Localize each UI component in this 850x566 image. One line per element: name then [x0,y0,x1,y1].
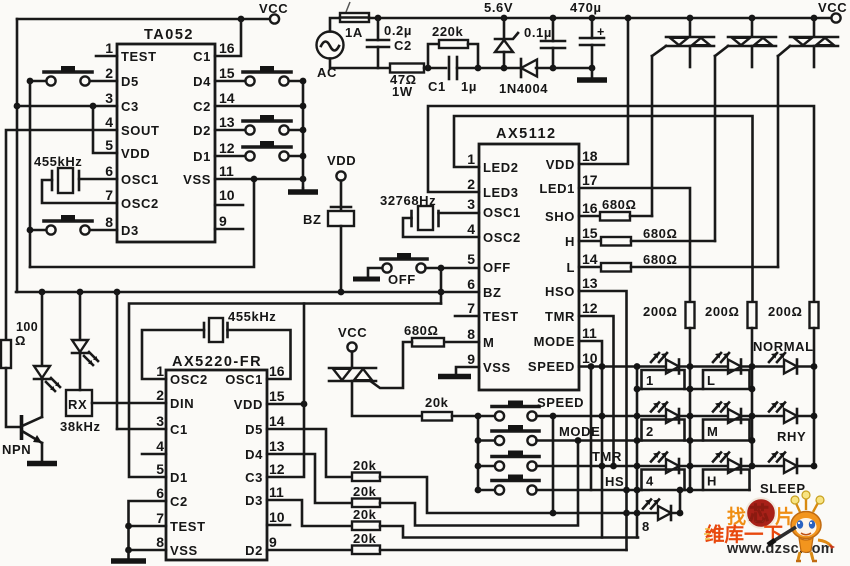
wire AC bottom row [330,59,390,69]
svg-text:+: + [597,25,605,39]
node zener bottom [501,65,508,72]
stray pencil mark [346,2,350,12]
node colB r3 [749,463,756,470]
node x553 top [550,413,557,420]
svg-text:C1: C1 [193,49,211,64]
wire matrix left vertical x637 [636,367,639,538]
wire row1 segment to colB [690,365,752,368]
wire 20k-4 long to row8 riser [380,549,627,552]
svg-text:1W: 1W [392,84,413,99]
pin10 stub AX5220 [267,524,290,527]
svg-text:C2: C2 [394,38,412,53]
node colA b3 [687,487,694,494]
node colB b2 [749,437,756,444]
resistor 200ohm col1 [643,302,695,328]
wire x117 riser [116,292,119,429]
wire box bottom line y389 [637,388,752,391]
svg-text:2: 2 [467,176,475,192]
zener D1 5.6V [484,0,518,68]
svg-text:VCC: VCC [818,0,847,15]
IC U1 TA052 body [105,27,235,242]
svg-text:TEST: TEST [483,309,519,324]
LED D12 cell H [713,453,741,474]
svg-text:D3: D3 [245,493,263,508]
svg-text:18: 18 [582,148,598,164]
node junction x93 on C3 line [90,103,97,110]
svg-text:7: 7 [105,187,113,203]
svg-text:TEST: TEST [121,49,157,64]
svg-text:38kHz: 38kHz [60,419,101,434]
label box H [703,470,750,491]
pushbutton OFF [353,253,427,287]
svg-text:15: 15 [219,65,235,81]
triac Q5 with VCC [329,325,376,381]
svg-text:RHY: RHY [777,429,806,444]
label box 2 [642,420,685,441]
ground GND3 [438,374,471,380]
svg-text:SLEEP: SLEEP [760,481,806,496]
svg-text:5: 5 [156,461,164,477]
svg-text:680Ω: 680Ω [643,252,678,267]
wire row3 segment A-B [637,465,752,468]
svg-text:9: 9 [467,351,475,367]
svg-text:TMR: TMR [592,449,622,464]
wire pin9 VSS to ground [456,367,479,374]
wire BZ long net y292 [16,291,479,294]
label box 1 [642,370,685,389]
wire triac Q5 MT1 [352,381,422,416]
IR LED D4 (x80) [72,292,98,390]
svg-text:D5: D5 [121,74,139,89]
node x680 bottom [677,510,684,517]
wire left rail x17 [16,19,19,292]
wire 20k-3 to x602 bracket [380,526,638,538]
LED D11 cell 4 [651,453,679,474]
node junction pin14 [300,103,307,110]
svg-text:TMR: TMR [545,309,575,324]
label box M [703,420,750,441]
node colB r1 [749,363,756,370]
node junction pin13 [300,127,307,134]
pushbutton S3 (pin15 D4) [215,66,303,86]
svg-text:C3: C3 [121,99,139,114]
LED D7 NORMAL [753,339,814,374]
svg-text:3: 3 [156,413,164,429]
svg-text:7: 7 [156,510,164,526]
node rail row2 [475,437,482,444]
svg-text:VDD: VDD [234,397,263,412]
wire pin11 VSS row [215,178,303,181]
svg-text:AX5220-FR: AX5220-FR [172,354,262,370]
wire pin11 MODE riser [579,341,602,538]
svg-text:HSO: HSO [545,284,575,299]
wire pin10 SPEED row1 [579,365,690,368]
svg-text:SHO: SHO [545,209,575,224]
node C2 top [375,15,382,22]
wire x304 riser to D1 net and pin12 C3 [267,304,304,478]
svg-text:680Ω: 680Ω [404,323,439,338]
svg-text:OSC1: OSC1 [225,372,263,387]
wire row1 segment to colC [752,365,814,368]
resistor 680ohm (SHO) [579,197,652,221]
svg-text:M: M [483,335,494,350]
diode D2 1N4004 [499,59,553,96]
wire pin13 HSO riser [579,291,627,550]
svg-text:SPEED: SPEED [537,395,584,410]
svg-text:0.2µ: 0.2µ [384,23,412,38]
resistor 200ohm col2 [705,302,757,328]
svg-text:L: L [707,373,716,388]
wire x591 riser [590,367,593,491]
svg-text:LED3: LED3 [483,185,519,200]
IC U3 AX5220-FR body [156,354,285,560]
pushbutton SPEED [478,395,584,421]
node colA r2 [687,413,694,420]
resistor 20k (common) [422,395,478,421]
node x680 top [677,487,684,494]
wire C1 to zener [457,67,504,70]
svg-text:12: 12 [219,140,235,156]
wire 0.1u to 470u [553,67,592,70]
node colC r1 [811,363,818,370]
node TEST junction [125,523,132,530]
svg-text:BZ: BZ [483,285,502,300]
svg-text:VSS: VSS [483,360,511,375]
svg-text:D2: D2 [245,543,263,558]
wire pin1 LED2 loop y116 [454,116,753,302]
node 470u bottom [589,65,596,72]
wire RX out to pin2 DIN [92,402,166,405]
node VDD-C3 junction [301,401,308,408]
node matrix x637 b3 [634,487,641,494]
power VCC terminal top-left [270,14,279,23]
svg-text:15: 15 [582,225,598,241]
node junction VSS-x303 [300,176,307,183]
wire matrix column C [813,328,816,466]
ground GND2 [591,68,594,78]
svg-text:470µ: 470µ [570,0,602,15]
node x602 row1 [599,413,606,420]
pushbutton S5 (pin12 D1) [215,141,303,161]
svg-text:10: 10 [219,187,235,203]
svg-text:H: H [565,234,575,249]
wire button left rail [477,416,480,490]
wire SPEED row to matrix [537,415,638,418]
capacitor C3 0.1u [524,18,565,68]
svg-text:11: 11 [269,484,284,500]
svg-text:MODE: MODE [559,424,600,439]
svg-text:OSC1: OSC1 [121,172,159,187]
wire below 100ohm to NPN base [6,368,21,427]
svg-text:14: 14 [269,413,285,429]
svg-text:LED1: LED1 [539,181,575,196]
wire pin3 C3 [17,105,117,108]
node triac3 rail [811,15,818,22]
node colC r2 [811,413,818,420]
svg-text:200Ω: 200Ω [705,304,740,319]
wire matrix column B [751,328,754,466]
svg-text:1A: 1A [345,25,363,40]
svg-text:D1: D1 [193,149,211,164]
wire x680 riser [679,490,682,513]
wire pin18 VDD to rail [579,18,628,164]
svg-text:9: 9 [219,213,227,229]
pin1 TEST stub [96,55,117,58]
svg-text:M: M [707,424,718,439]
svg-text:D4: D4 [193,74,211,89]
pin4 stub [142,453,166,456]
svg-text:8: 8 [105,214,113,230]
node LED drive tap1 [39,289,46,296]
svg-text:C1: C1 [428,79,446,94]
wire pin16 C1 to VCC rail [215,19,241,56]
svg-text:1: 1 [467,151,475,167]
wire pin4 SOUT to left rail [6,130,117,340]
wire gate1 riser [651,56,654,216]
LED D9 cell M [713,403,741,424]
node 220k left [425,65,432,72]
node colA r1 [687,363,694,370]
node colB r2 [749,413,756,420]
node x626 HS row [623,487,630,494]
resistor 680ohm (H) [579,226,715,246]
svg-text:www.dzsc.com: www.dzsc.com [726,541,834,557]
svg-text:8: 8 [642,519,650,534]
svg-text:OSC2: OSC2 [121,196,159,211]
svg-text:C3: C3 [245,470,263,485]
svg-text:6: 6 [156,485,164,501]
svg-text:220k: 220k [432,24,463,39]
crystal X3 455kHz [204,309,276,342]
svg-text:OFF: OFF [388,272,416,287]
svg-text:3: 3 [105,90,113,106]
svg-text:NPN: NPN [2,442,31,457]
svg-text:L: L [566,260,575,275]
label box L [703,370,750,389]
svg-text:2: 2 [105,65,113,81]
svg-text:SPEED: SPEED [528,359,575,374]
wire pin14 C2 [215,105,303,108]
svg-text:20k: 20k [425,395,449,410]
wire 32768 right to pin3 OSC1 [439,212,480,215]
node OFF junction [438,265,445,272]
triac Q3 [715,18,776,67]
pushbutton HS [478,474,624,495]
svg-text:OFF: OFF [483,260,511,275]
svg-text:200Ω: 200Ω [643,304,678,319]
svg-text:5: 5 [105,137,113,153]
wire D5 to 20k-1 [267,429,352,477]
svg-text:BZ: BZ [303,212,322,227]
wire OFF riser [440,268,443,304]
node x553 bottom [550,510,557,517]
node VCC tap [238,16,245,23]
svg-text:8: 8 [156,534,164,550]
node 220k right [475,65,482,72]
buzzer BZ with VDD feed [303,153,356,227]
node pin10 tap [588,363,595,370]
resistor 220k parallel loop [428,24,478,68]
node zener top [501,15,508,22]
wire 20k-2 to MODE bracket [380,441,578,526]
svg-text:D1: D1 [170,470,188,485]
LED D14 cell 8 [642,500,671,535]
svg-text:9: 9 [269,534,277,550]
wire buzzer bottom [340,226,343,292]
svg-text:5.6V: 5.6V [484,0,513,15]
IR LED D3 (x42) [34,292,60,417]
svg-text:D5: D5 [245,422,263,437]
wire row2 segment B-C [752,415,814,418]
wire 20k-1 to HS bracket [380,477,627,513]
svg-text:SOUT: SOUT [121,123,160,138]
RX module 38kHz [60,390,101,434]
wire row8 [627,512,681,515]
svg-text:VSS: VSS [183,172,211,187]
svg-text:VDD: VDD [327,153,356,168]
svg-text:VCC: VCC [259,1,288,16]
node colA b1 [687,386,694,393]
wire x553 riser [552,416,555,513]
node matrix x637 r2 [634,413,641,420]
ground GND5 [27,461,57,467]
power VCC terminal top-right [831,13,840,22]
svg-text:D3: D3 [121,223,139,238]
resistor 20k-3 [352,507,380,530]
svg-text:C1: C1 [170,422,188,437]
node junction pin2 button [27,78,34,85]
svg-text:6: 6 [467,276,475,292]
wire row2 segment A-B [637,415,752,418]
LED D8 cell 2 [651,403,679,424]
wire pin6 C2 common [129,501,167,551]
wire MODE row to matrix [537,439,753,442]
node colC r3 [811,463,818,470]
node LED drive tap2 [77,289,84,296]
svg-text:15: 15 [269,388,285,404]
node matrix x637 b2 [634,437,641,444]
wire AC top to fuse [330,18,340,32]
svg-text:20k: 20k [353,531,377,546]
triac Q2 [652,18,714,67]
resistor 20k-1 [352,458,380,481]
node C1 net tap [114,289,121,296]
node buzzer junction [338,289,345,296]
svg-text:11: 11 [582,325,597,341]
label box 4 [642,470,685,491]
svg-text:1µ: 1µ [461,79,477,94]
svg-text:1N4004: 1N4004 [499,81,548,96]
svg-text:455kHz: 455kHz [228,309,276,324]
node junction C3-left [14,103,21,110]
svg-text:14: 14 [219,90,235,106]
svg-text:680Ω: 680Ω [643,226,678,241]
svg-text:D2: D2 [193,123,211,138]
node rail row1 [475,413,482,420]
wire pin3 C1 [117,428,166,431]
svg-text:13: 13 [269,438,285,454]
pushbutton S2 (pin8 D3) [30,215,117,235]
wire rail x30 [29,81,32,267]
svg-text:17: 17 [582,172,598,188]
LED D13 SLEEP [760,453,806,497]
svg-text:OSC2: OSC2 [483,230,521,245]
svg-text:100: 100 [16,320,38,334]
wire 47ohm to C1 [424,67,446,70]
node colA r3 [687,463,694,470]
LED D6 cell L [713,353,741,374]
wire crystal to pin1 OSC2 [142,330,204,379]
wire 32768 left to pin4 OSC2 [403,218,479,237]
crystal X2 32768Hz [380,193,439,230]
svg-text:HS: HS [605,474,624,489]
resistor 47ohm 1W [390,64,424,73]
wire D1 long net y303.5 [129,304,441,478]
wire top-left VCC rail [17,18,270,21]
resistor 680ohm (L) [579,252,778,272]
wire top rail [369,17,831,20]
svg-text:OSC2: OSC2 [170,372,208,387]
svg-text:20k: 20k [353,458,377,473]
svg-text:6: 6 [105,163,113,179]
svg-text:LED2: LED2 [483,160,519,175]
svg-text:1: 1 [105,40,113,56]
svg-text:20k: 20k [353,484,377,499]
svg-text:4: 4 [467,221,475,237]
svg-text:13: 13 [582,275,598,291]
svg-text:H: H [707,474,717,489]
svg-text:1: 1 [646,373,654,388]
wire gate2 riser [714,56,717,241]
svg-text:12: 12 [582,300,598,316]
node matrix x637 r1 [634,363,641,370]
resistor R 100ohm [1,340,11,368]
wire D2 pin9 to 20k-4 [267,549,352,552]
node x602 row1 crossing [599,363,606,370]
wire pin8 VSS [129,549,167,552]
svg-text:10: 10 [269,509,285,525]
svg-text:20k: 20k [353,507,377,522]
node colB b1 [749,386,756,393]
fuse F1 1A [340,13,369,22]
svg-text:C2: C2 [193,99,211,114]
ground GND1 [302,188,305,190]
mascot cartoon [768,491,835,561]
svg-text:C2: C2 [170,494,188,509]
wire D4 to 20k-2 [267,454,352,503]
triac Q4 [778,18,838,67]
pushbutton S1 (pin2 D5) [30,66,117,86]
svg-text:VDD: VDD [546,157,575,172]
svg-text:TA052: TA052 [144,27,194,43]
svg-text:芯: 芯 [749,502,769,526]
node junction pin12 [300,153,307,160]
node VSS junction [125,547,132,554]
wire pin2 LED3 loop y106 [428,106,814,302]
wire matrix column A [689,328,692,490]
svg-text:13: 13 [219,114,235,130]
svg-text:VSS: VSS [170,543,198,558]
svg-text:MODE: MODE [534,334,575,349]
node x602 row3 [599,463,606,470]
wire pin7 TEST [129,525,167,528]
node VDD rail [625,15,632,22]
node BZ net junction [438,289,445,296]
svg-text:11: 11 [219,163,234,179]
resistor 200ohm col3 [768,302,819,328]
svg-text:1: 1 [156,363,164,379]
svg-text:16: 16 [582,200,598,216]
